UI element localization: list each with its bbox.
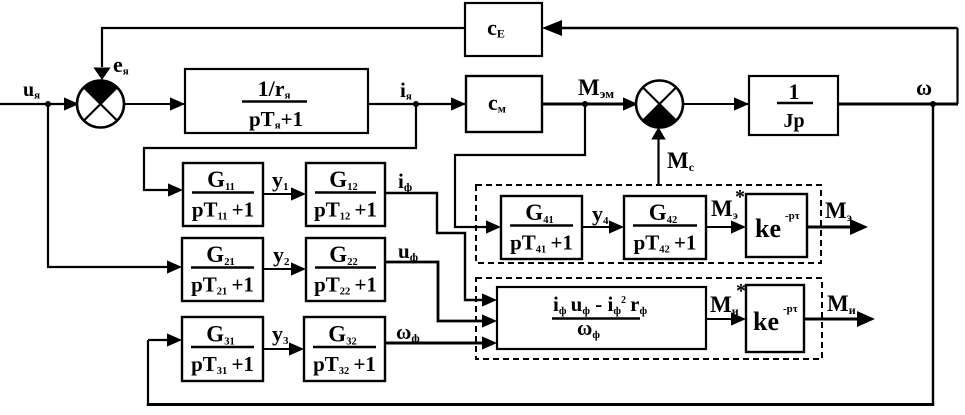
block: power computation (i_ф u_ф - i_ф² r_ф)/ω_ф [497,287,706,349]
block: transfer function G_32/(pT_32+1) [304,317,385,381]
block: EMF constant c_Е [465,3,542,56]
wire: ω feedback down right side, along bottom, up into G_31 (thick) [147,104,934,406]
block: transfer function G_41/(pT_41+1) [501,196,582,259]
svg-text:ω: ω [916,75,932,100]
block: transfer function G_31/(pT_31+1) [182,317,263,381]
node: i_я branch point [413,101,419,107]
svg-text:iф uф - iф2 rф: iф uф - iф2 rф [553,292,647,317]
node: M_эм branch point [582,101,588,107]
wire: u_ф from G_22 down into power-loss block input 2 (thick) [385,262,497,328]
svg-text:ke: ke [755,214,781,243]
svg-text:*: * [735,186,745,208]
wire: M_эм branch down and left into G_41 input [455,104,585,234]
wire: armature current i_я to c_м block [368,97,466,110]
block: mechanical inertia 1/Jp [749,76,838,135]
block: transfer function G_21/(pT_21+1) [182,238,263,301]
label M_э* with superscript star [711,186,745,222]
wire: M_э* from G_42 to delay block [706,220,746,233]
wire: SJ2 to 1/Jp block [683,97,750,110]
block: transfer function G_11/(pT_11+1) [183,163,263,226]
block: transport delay ke^-pτ (power channel) [746,285,804,352]
svg-text:-pτ: -pτ [783,303,798,315]
wire: y_1 from G_11 to G_12 [263,187,306,200]
wire: load torque M_с input up into SJ2 [651,127,665,185]
wire: electromagnetic torque M_эм to summing junction SJ2 (thick) [542,97,638,110]
svg-text:-pτ: -pτ [785,210,800,222]
wire: y_2 from G_21 to G_22 [263,262,306,275]
dashed group box: power/torque measurement channel [476,278,822,359]
wire: measured torque output M_э (thick arrow out) [807,219,868,235]
svg-text:Jp: Jp [783,110,804,132]
block: armature transfer function 1/r_я over pT_я+1 [185,69,368,133]
svg-text:ke: ke [753,307,779,336]
wire: u_я branch into G_21 input [48,104,182,274]
wire: ω feedback into G_31 input [148,333,182,346]
wire: i_я branch down and left into G_11 input [144,104,416,197]
wire: SJ1 to armature block [124,97,186,110]
node: u_я branch point [45,101,51,107]
wire: armature voltage input u_я into summing junction [0,97,79,110]
block: transfer function G_12/(pT_12+1) [306,163,385,226]
dashed group box: electromagnetic torque estimator channel [476,185,821,263]
block: transfer function G_42/(pT_42+1) [624,196,706,259]
wire: i_ф from G_12 down into power-loss block input 1 [385,193,497,307]
node: ω branch point [930,101,936,107]
block: transfer function G_22/(pT_22+1) [306,238,385,301]
summing junction SJ2 (load torque subtraction, bottom sector filled) [636,81,683,128]
wire: M_и* from power block to delay block [706,312,746,325]
summing junction SJ1 (armature EMF subtraction, top sector filled) [77,81,124,128]
wire: e_я feedback from c_Е block down into SJ1 [93,28,465,80]
label M_и* with superscript star [710,280,746,318]
svg-text:1: 1 [789,79,800,104]
block: transport delay ke^-pτ (torque channel) [746,194,807,257]
wire: speed output ω (thick) [838,103,958,106]
block: torque constant c_м [466,76,542,132]
svg-text:*: * [736,280,746,302]
wire: y_3 from G_31 to G_32 [263,342,304,355]
wire: y_4 from G_41 to G_42 [582,220,624,233]
wire: measured power output M_и (thick arrow out) [804,311,875,327]
wire: ω_ф from G_32 into power-loss block input 3 (thick) [385,336,497,349]
wire: ω up right edge to c_Е feedback (speed feedback) [542,20,958,104]
